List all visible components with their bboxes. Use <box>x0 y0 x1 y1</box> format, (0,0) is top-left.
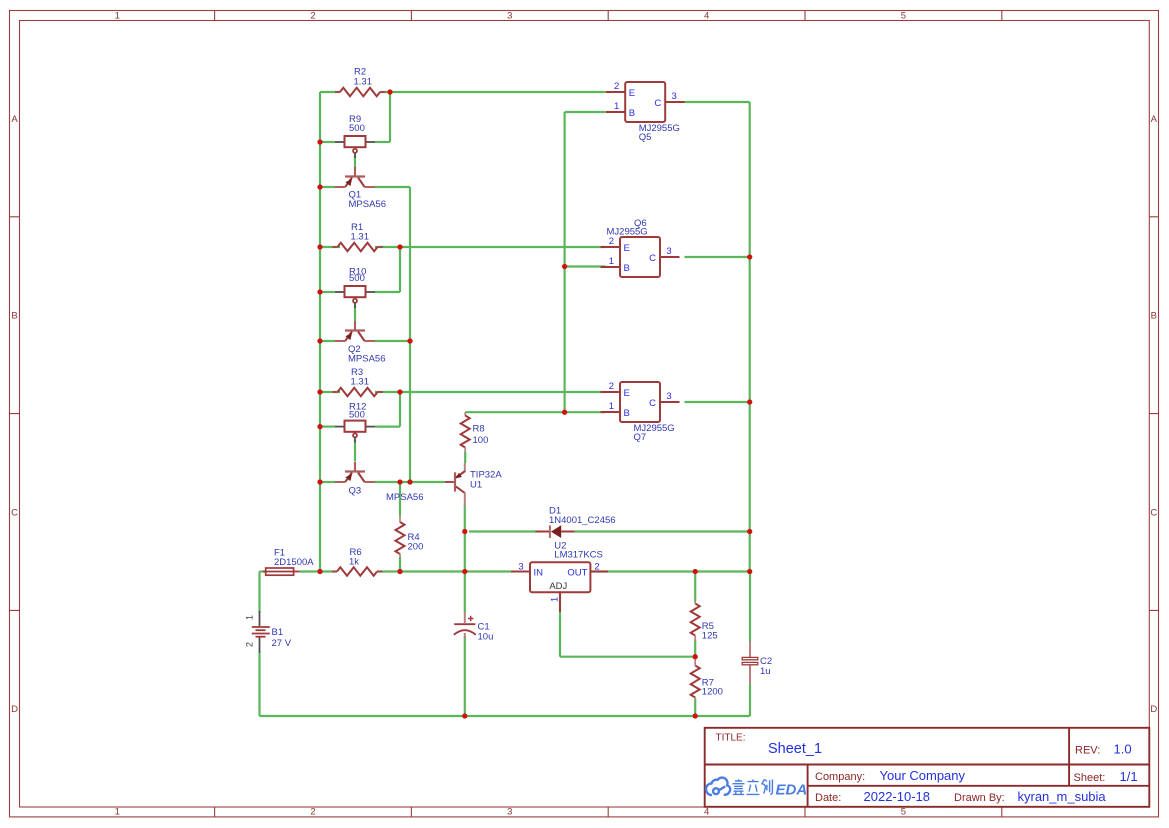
wire R12 left <box>320 426 335 428</box>
wire base rail <box>563 112 565 412</box>
svg-text:E: E <box>624 243 630 254</box>
junction R3 right <box>397 389 402 394</box>
potentiometer R10 <box>335 291 345 293</box>
lead R4 bottom <box>399 554 401 558</box>
svg-text:OUT: OUT <box>567 568 587 579</box>
svg-text:2: 2 <box>310 10 315 21</box>
junction Q6 B <box>562 264 567 269</box>
wire U2.OUT <box>590 570 695 572</box>
wire R9 left <box>320 141 335 143</box>
svg-text:B: B <box>11 311 17 322</box>
svg-text:2: 2 <box>614 81 619 92</box>
wire R5 top <box>694 572 696 602</box>
svg-text:5: 5 <box>901 10 906 21</box>
wire C2 bottom <box>749 684 751 716</box>
wire Q1 collector <box>375 186 411 188</box>
svg-text:ADJ: ADJ <box>549 581 567 592</box>
wire D1 right <box>575 530 750 532</box>
wire U1 collector down <box>464 505 466 612</box>
svg-text:1.31: 1.31 <box>354 77 373 88</box>
wire R5 bottom <box>694 640 696 657</box>
junction R1 right <box>397 244 402 249</box>
svg-text:1u: 1u <box>760 666 771 677</box>
svg-text:2: 2 <box>594 562 599 573</box>
wire collector rail <box>409 187 411 482</box>
wire R3 to Q7.E <box>375 391 606 393</box>
svg-text:1: 1 <box>609 256 614 267</box>
svg-text:Sheet:: Sheet: <box>1074 772 1106 784</box>
svg-text:1: 1 <box>115 807 120 818</box>
wire Q3 collector to U1 base <box>375 481 445 483</box>
lead R7 top <box>694 657 696 666</box>
wire R2 to Q5.E <box>380 91 606 93</box>
svg-text:2: 2 <box>609 236 614 247</box>
junction Q6 C <box>747 254 752 259</box>
resistor R4 <box>396 522 405 554</box>
junction R4 bottom <box>397 569 402 574</box>
svg-text:2D1500A: 2D1500A <box>274 557 314 568</box>
junction R4 top <box>397 479 402 484</box>
transistor Q5 <box>606 82 685 122</box>
svg-text:2: 2 <box>310 807 315 818</box>
svg-text:MPSA56: MPSA56 <box>349 199 387 210</box>
transistor Q3 <box>335 462 375 482</box>
svg-text:1: 1 <box>245 615 255 620</box>
fuse F1 <box>263 568 300 575</box>
svg-text:1: 1 <box>609 401 614 412</box>
junction C2 top <box>747 569 752 574</box>
junction R1 left <box>317 244 322 249</box>
svg-text:kyran_m_subia: kyran_m_subia <box>1018 789 1107 804</box>
svg-text:EDA: EDA <box>776 781 808 798</box>
wire Q7.B <box>565 411 606 413</box>
wire R9 wiper to Q1 base <box>354 156 356 168</box>
svg-text:TITLE:: TITLE: <box>716 733 746 744</box>
wire fuse left <box>260 570 266 572</box>
svg-text:3: 3 <box>507 10 512 21</box>
svg-text:MPSA56: MPSA56 <box>348 354 386 365</box>
junction C1 top <box>462 569 467 574</box>
wire D1 left <box>469 530 536 532</box>
transistor U1 <box>445 463 465 506</box>
svg-text:2022-10-18: 2022-10-18 <box>864 789 931 804</box>
wire R3 left <box>320 391 340 393</box>
wire R10 wiper to Q2 base <box>354 306 356 322</box>
svg-text:B: B <box>624 408 630 419</box>
resistor R8 <box>461 416 470 448</box>
svg-text:A: A <box>1151 114 1158 125</box>
svg-text:REV:: REV: <box>1075 745 1100 757</box>
transistor Q2 <box>335 321 375 341</box>
svg-text:A: A <box>11 114 18 125</box>
wire Q5.B <box>565 111 606 113</box>
junction rail fuse <box>317 569 322 574</box>
resistor R7 <box>691 666 700 698</box>
lead R5 top <box>694 601 696 604</box>
capacitor C2 <box>742 642 758 685</box>
wire R1 to Q6.E <box>375 246 606 248</box>
svg-text:C: C <box>649 398 656 409</box>
wire Q7.C <box>685 401 750 403</box>
wire C1 bottom <box>464 636 466 716</box>
svg-text:B1: B1 <box>272 627 284 638</box>
transistor Q1 <box>335 167 375 187</box>
svg-text:1.0: 1.0 <box>1114 742 1132 757</box>
svg-text:3: 3 <box>666 391 671 402</box>
wire R6 to U2.IN <box>377 570 511 572</box>
wire ADJ to R5/R7 <box>560 656 695 658</box>
resistor R1 <box>338 243 378 252</box>
svg-text:500: 500 <box>349 410 365 421</box>
svg-text:5: 5 <box>901 807 906 818</box>
svg-text:C: C <box>1150 507 1157 518</box>
svg-text:D: D <box>11 704 18 715</box>
wire R1 right to R10 right <box>399 247 401 292</box>
wire R2 left <box>320 91 340 93</box>
lead R8 top <box>464 412 466 416</box>
svg-text:Sheet_1: Sheet_1 <box>768 741 822 757</box>
svg-text:1.31: 1.31 <box>351 377 370 388</box>
junction R9 left <box>317 139 322 144</box>
wire R7 bottom <box>694 699 696 716</box>
junction ADJ <box>693 654 698 659</box>
junction Q2 C <box>407 338 412 343</box>
svg-text:4: 4 <box>704 10 709 21</box>
transistor Q6 <box>601 237 680 277</box>
svg-text:27 V: 27 V <box>272 638 292 649</box>
junction R3 left <box>317 389 322 394</box>
wire Q3 emitter <box>320 481 335 483</box>
svg-text:1: 1 <box>614 101 619 112</box>
svg-text:1: 1 <box>115 10 120 21</box>
svg-text:LM317KCS: LM317KCS <box>554 549 603 560</box>
wire Q5.C <box>685 101 750 103</box>
svg-text:Your Company: Your Company <box>880 768 966 783</box>
svg-text:3: 3 <box>666 246 671 257</box>
svg-text:1200: 1200 <box>702 687 723 698</box>
junction D1 right <box>747 529 752 534</box>
svg-text:B: B <box>629 108 635 119</box>
svg-text:C: C <box>654 98 661 109</box>
logo JLC EDA <box>706 778 730 795</box>
junction R10 left <box>317 289 322 294</box>
wire left rail <box>319 92 321 572</box>
wire R8 to U1.E <box>464 452 466 464</box>
svg-text:2: 2 <box>609 381 614 392</box>
svg-text:MJ2955G: MJ2955G <box>607 227 648 238</box>
junction Q2 E <box>317 338 322 343</box>
svg-text:D: D <box>1150 704 1157 715</box>
junction D1 left <box>462 529 467 534</box>
svg-text:Date:: Date: <box>815 792 841 804</box>
diode D1 <box>535 525 574 538</box>
svg-text:1N4001_C2456: 1N4001_C2456 <box>549 515 616 526</box>
wire R3 right to R12 right <box>399 392 401 427</box>
wire R8 top link <box>465 411 564 413</box>
wire Q6.C <box>685 256 750 258</box>
lead R7 bottom <box>694 698 696 701</box>
transistor Q7 <box>601 382 680 422</box>
svg-text:Q5: Q5 <box>639 132 652 143</box>
svg-text:B: B <box>624 263 630 274</box>
wire Q2 collector <box>375 340 411 342</box>
wire Q1 emitter <box>320 186 335 188</box>
junction Q1 E <box>317 184 322 189</box>
svg-text:U1: U1 <box>470 480 482 491</box>
lead R4 top <box>399 516 401 523</box>
svg-text:1.31: 1.31 <box>351 232 370 243</box>
wire to R4 top <box>399 482 401 516</box>
wire OUT to C2 rail <box>695 570 750 572</box>
junction R7 bottom <box>693 713 698 718</box>
junction Q7 B <box>562 410 567 415</box>
wire R10 right <box>375 291 400 293</box>
regulator U2 <box>511 562 608 612</box>
svg-text:100: 100 <box>473 435 489 446</box>
svg-text:C: C <box>649 253 656 264</box>
junction collector rail <box>407 479 412 484</box>
svg-text:500: 500 <box>349 273 365 284</box>
svg-text:1k: 1k <box>349 557 359 568</box>
wire battery bottom <box>258 652 260 717</box>
svg-text:1/1: 1/1 <box>1120 769 1138 784</box>
wire R12 right <box>375 426 400 428</box>
svg-text:2: 2 <box>245 642 255 647</box>
potentiometer R9 <box>335 141 345 143</box>
svg-text:Q3: Q3 <box>349 486 362 497</box>
resistor R2 <box>340 88 380 97</box>
wire R10 left <box>320 291 335 293</box>
battery B1 <box>252 611 270 653</box>
svg-text:E: E <box>624 388 630 399</box>
wire R4 bottom <box>399 557 401 572</box>
svg-text:R8: R8 <box>473 424 485 435</box>
svg-text:200: 200 <box>408 541 424 552</box>
resistor R5 <box>691 604 700 636</box>
wire C2 top <box>749 572 751 642</box>
svg-text:3: 3 <box>518 562 523 573</box>
svg-text:3: 3 <box>672 91 677 102</box>
svg-text:MPSA56: MPSA56 <box>386 492 424 503</box>
svg-text:3: 3 <box>507 807 512 818</box>
junction Q3 E <box>317 479 322 484</box>
junction R2 right <box>387 89 392 94</box>
svg-text:500: 500 <box>349 123 365 134</box>
svg-text:E: E <box>629 88 635 99</box>
resistor R6 <box>337 567 377 576</box>
capacitor C1 <box>454 612 476 638</box>
wire battery top <box>258 572 260 613</box>
wire Q2 emitter <box>320 340 335 342</box>
wire R2 right to R9 right <box>389 92 391 142</box>
wire right rail <box>749 102 751 572</box>
resistor R3 <box>338 388 378 397</box>
svg-text:4: 4 <box>704 807 709 818</box>
junction Q7 C <box>747 399 752 404</box>
svg-text:Company:: Company: <box>815 771 865 783</box>
wire ADJ down <box>559 593 561 657</box>
svg-text:B: B <box>1151 311 1157 322</box>
title block <box>705 728 1150 807</box>
svg-text:IN: IN <box>534 568 544 579</box>
svg-text:Drawn By:: Drawn By: <box>954 792 1005 804</box>
wire R9 right <box>375 141 390 143</box>
svg-text:1: 1 <box>549 597 560 602</box>
svg-text:10u: 10u <box>478 632 494 643</box>
lead R5 bottom <box>694 636 696 642</box>
lead R8 bottom <box>464 448 466 452</box>
junction C1 bottom <box>462 713 467 718</box>
junction R5 top <box>693 569 698 574</box>
svg-text:C: C <box>11 507 18 518</box>
svg-text:Q7: Q7 <box>634 432 647 443</box>
wire R1 left <box>320 246 340 248</box>
wire R12 wiper to Q3 base <box>354 440 356 462</box>
wire bottom rail <box>260 715 751 717</box>
svg-text:125: 125 <box>702 631 718 642</box>
junction R12 left <box>317 424 322 429</box>
wire fuse to R6 <box>300 570 338 572</box>
potentiometer R12 <box>335 426 345 428</box>
wire Q6.B <box>565 265 606 267</box>
